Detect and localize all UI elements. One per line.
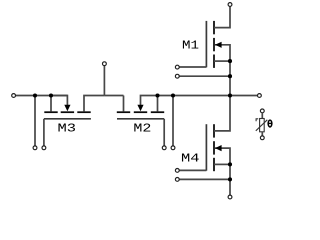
M2 gate bar [117, 118, 164, 120]
M3 channel dash 1 [44, 111, 57, 113]
M2 drain corner [123, 96, 125, 112]
riser terminal circle [103, 62, 107, 66]
M1 drain stub [214, 7, 230, 28]
svg-text:M4: M4 [181, 152, 200, 166]
M2 body wire [141, 96, 158, 106]
M1 tie wire [179, 75, 230, 77]
M3 source junction dot [49, 93, 53, 97]
wire: bus from M2 source to right terminal [158, 95, 258, 97]
thermistor foot mark [256, 119, 258, 122]
M2 tie junction dot [171, 93, 175, 97]
thermistor top terminal circle [260, 109, 264, 113]
thermistor top lead [261, 113, 263, 119]
M2 source junction dot [155, 93, 159, 97]
M2 channel dash 1 [117, 111, 130, 113]
thermistor body box [260, 119, 265, 132]
M3 body wire [51, 96, 67, 106]
M3 gate bar [44, 118, 91, 120]
M4 body arrow [215, 145, 222, 151]
thermistor theta label (drawn) [268, 120, 272, 127]
M2 gate lead down to terminal [163, 119, 165, 146]
M1 drain terminal circle [228, 3, 232, 7]
M4 source stub [214, 163, 230, 165]
M2 body arrow [137, 105, 143, 112]
M1 gate terminal circle [175, 65, 179, 69]
svg-text:M1: M1 [182, 39, 199, 53]
M1 gate bar [205, 21, 207, 67]
M1 tie terminal circle [175, 74, 179, 78]
thermistor RT (right side) [256, 109, 273, 140]
M3 tie terminal circle [33, 146, 37, 150]
junction dot column x bus [228, 93, 232, 97]
M2 tie terminal circle [171, 146, 175, 150]
M1 body arrow [215, 42, 222, 48]
node riser between M3 and M2 [103, 62, 124, 96]
transistor M2 (horizontal) [117, 96, 175, 150]
M4 gate bar [205, 124, 207, 171]
riser wire [103, 66, 105, 96]
transistor M4 (vertical, bottom right) [175, 96, 232, 199]
M4 tie junction dot [228, 177, 232, 181]
M3 channel dash 2 [61, 111, 74, 113]
M3 tie junction dot [33, 93, 37, 97]
M3 source drop [50, 96, 52, 112]
M1 source stub [214, 60, 230, 62]
thermistor bottom terminal circle [260, 136, 264, 140]
thermistor diagonal stroke [256, 120, 267, 131]
M4 body wire [215, 148, 230, 195]
junction dots layer [33, 59, 232, 181]
M1 body wire [215, 45, 230, 96]
M2 bulk tie drop [172, 96, 174, 146]
M1 tie junction dot [228, 74, 232, 78]
M4 gate lead [179, 169, 206, 171]
M1 channel dash 3 [213, 55, 215, 68]
M4 channel dash 1 [213, 124, 215, 137]
M1 channel dash 2 [213, 38, 215, 51]
M1 gate lead [179, 66, 206, 68]
M4 tie wire [179, 178, 230, 180]
M2 channel dash 3 [151, 111, 164, 113]
M2 source drop [157, 96, 159, 112]
transistor M1 (vertical, top right) [175, 3, 232, 96]
terminal: left input circle [12, 94, 16, 98]
M3 gate terminal circle [42, 146, 46, 150]
M4 gate terminal circle [175, 169, 179, 173]
M3 gate lead down to terminal [43, 119, 45, 146]
wire: left bus segment [15, 95, 67, 97]
M2 gate terminal circle [162, 146, 166, 150]
M4 bottom terminal circle [228, 195, 232, 199]
M3 bulk tie drop [34, 96, 36, 146]
M1 channel dash 1 [213, 21, 215, 34]
M4 channel dash 2 [213, 141, 215, 154]
wire riser to M2 drain [104, 95, 123, 97]
M4 drain stub [214, 96, 230, 131]
terminal: right output circle [258, 94, 262, 98]
M1 source junction dot [228, 59, 232, 63]
svg-text:M3: M3 [58, 122, 77, 136]
M3 channel dash 3 [77, 111, 90, 113]
M4 source junction dot [228, 162, 232, 166]
M4 tie terminal circle [175, 178, 179, 182]
M2 channel dash 2 [134, 111, 147, 113]
transistor M3 (horizontal, mirrored) [33, 96, 104, 150]
M4 channel dash 3 [213, 158, 215, 171]
M3 body arrow [64, 105, 70, 112]
M3 drain corner [84, 96, 104, 112]
thermistor bottom lead [261, 132, 263, 136]
svg-text:M2: M2 [133, 121, 151, 135]
